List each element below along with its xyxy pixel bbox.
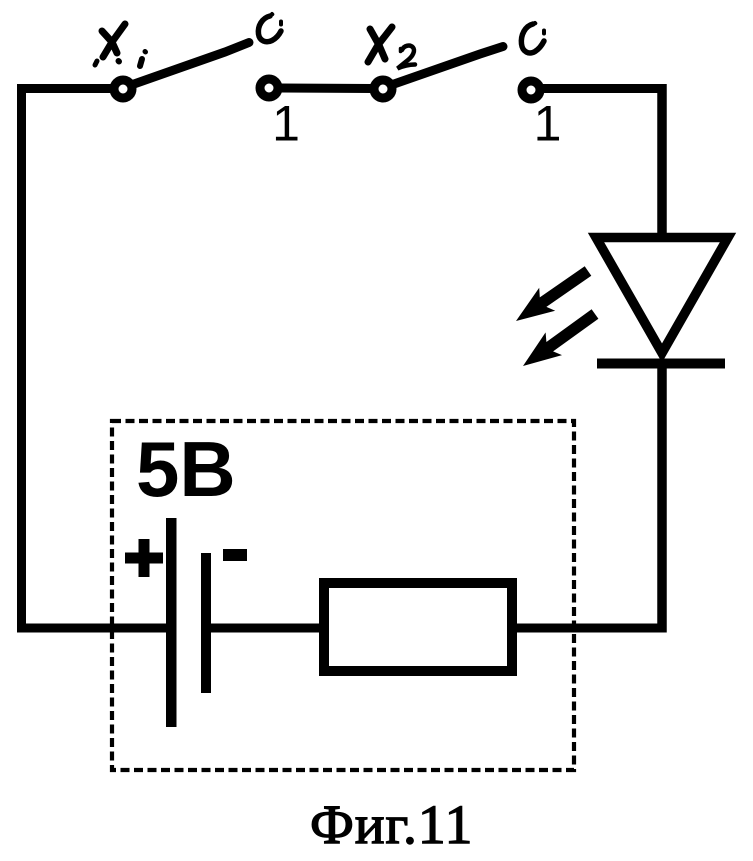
LED cathode bar [597, 359, 725, 369]
wire: top-left horizontal (to switch X1) [17, 84, 112, 93]
label − (battery negative) [223, 549, 247, 561]
wire: top-right horizontal (X2 contact to LED anode) [542, 84, 667, 93]
switch X1 common terminal [114, 80, 132, 98]
LED VD1 triangle (anode) [596, 238, 728, 354]
svg-text:5В: 5В [136, 425, 236, 513]
wire: between X1 contact and X2 common [280, 84, 372, 94]
switch X2 lever arm [394, 47, 503, 85]
label X1 [95, 24, 146, 66]
switch X2 contact terminal (position 1) [522, 81, 540, 99]
label C (switch X1 open-position contact) [258, 14, 281, 42]
label X2 [368, 27, 415, 69]
wire: battery − to resistor [207, 624, 326, 633]
switch X1 lever arm [134, 43, 249, 85]
svg-text:1: 1 [534, 96, 562, 152]
svg-text:Фиг.11: Фиг.11 [310, 795, 473, 856]
wire: right vertical upper (to LED anode) [657, 84, 667, 240]
resistor R1 [324, 583, 512, 671]
LED light-emission arrow 2 [523, 309, 598, 366]
wire: bottom-left horizontal (left corner to battery +) [17, 624, 170, 633]
label C (switch X2 open-position contact) [521, 23, 544, 53]
battery unit dashed enclosure box [112, 421, 574, 770]
LED light-emission arrow 1 [516, 266, 591, 321]
battery GB1 negative plate (short) [201, 553, 211, 693]
switch X1 contact terminal (position 1) [260, 79, 278, 97]
label + (battery positive) [125, 539, 163, 577]
svg-text:1: 1 [272, 96, 300, 152]
switch X2 common terminal [374, 80, 392, 98]
wire: left vertical (node A to battery +) [17, 84, 26, 633]
wire: bottom-right horizontal (resistor to right corner) [512, 624, 667, 633]
wire: right vertical lower (LED cathode to bottom corner) [657, 364, 667, 633]
battery GB1 positive plate (long) [166, 518, 177, 727]
